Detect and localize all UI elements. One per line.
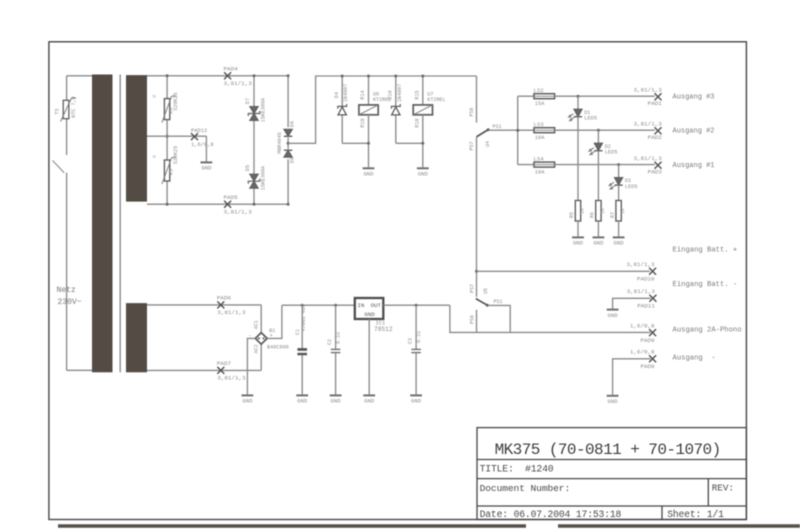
svg-text:R6: R6 bbox=[590, 212, 596, 218]
svg-text:OUT: OUT bbox=[371, 302, 382, 309]
svg-text:Eingang Batt. +: Eingang Batt. + bbox=[673, 247, 738, 255]
svg-text:D5: D5 bbox=[245, 165, 251, 171]
svg-text:D10: D10 bbox=[387, 90, 393, 99]
svg-text:GND: GND bbox=[418, 171, 429, 178]
svg-text:U5: U5 bbox=[483, 288, 489, 294]
svg-text:C3: C3 bbox=[408, 338, 414, 344]
svg-text:D8: D8 bbox=[289, 157, 295, 163]
svg-text:LED5: LED5 bbox=[625, 184, 638, 190]
svg-text:PAD1: PAD1 bbox=[648, 100, 663, 107]
svg-text:GND: GND bbox=[331, 398, 342, 405]
svg-text:Ausgang #1: Ausgang #1 bbox=[673, 162, 715, 170]
svg-text:R7: R7 bbox=[610, 212, 616, 218]
svg-text:PAD9: PAD9 bbox=[640, 337, 655, 344]
svg-text:Netz: Netz bbox=[57, 286, 76, 295]
svg-text:U: U bbox=[151, 95, 157, 98]
svg-text:LS3: LS3 bbox=[534, 121, 544, 128]
svg-text:PAD5: PAD5 bbox=[224, 194, 239, 201]
svg-text:U: U bbox=[152, 155, 158, 158]
svg-text:3,81/1,3: 3,81/1,3 bbox=[634, 121, 663, 128]
svg-text:Ausgang -: Ausgang - bbox=[673, 354, 716, 362]
svg-text:Document Number:: Document Number: bbox=[480, 483, 571, 494]
svg-text:GND: GND bbox=[201, 165, 212, 172]
svg-text:10A: 10A bbox=[535, 169, 545, 175]
svg-text:GND: GND bbox=[608, 312, 619, 319]
svg-text:Ausgang #3: Ausgang #3 bbox=[673, 94, 715, 102]
svg-text:R5: R5 bbox=[168, 169, 174, 175]
svg-text:GND: GND bbox=[242, 398, 253, 405]
svg-text:B40C800: B40C800 bbox=[267, 344, 289, 350]
svg-text:GND: GND bbox=[593, 240, 604, 247]
svg-text:GND: GND bbox=[614, 240, 625, 247]
svg-text:AC2: AC2 bbox=[254, 344, 260, 353]
svg-text:1k: 1k bbox=[580, 208, 586, 214]
svg-text:GND: GND bbox=[364, 311, 375, 318]
svg-text:PS7: PS7 bbox=[470, 284, 476, 293]
svg-text:R14: R14 bbox=[360, 90, 366, 99]
svg-text:GND: GND bbox=[573, 240, 584, 247]
svg-text:Ausgang 2A-Phono: Ausgang 2A-Phono bbox=[673, 327, 742, 335]
svg-text:PAD11: PAD11 bbox=[637, 303, 655, 310]
svg-text:0.1u: 0.1u bbox=[336, 332, 342, 344]
svg-text:PAD4: PAD4 bbox=[224, 66, 239, 73]
svg-text:230V~: 230V~ bbox=[58, 298, 82, 307]
svg-text:MK375 (70-0811 + 70-1070): MK375 (70-0811 + 70-1070) bbox=[495, 441, 721, 459]
svg-text:1k: 1k bbox=[600, 208, 606, 214]
svg-text:S20K25: S20K25 bbox=[173, 146, 179, 164]
svg-text:PS7: PS7 bbox=[469, 141, 475, 150]
svg-text:PAD12: PAD12 bbox=[191, 128, 207, 134]
svg-text:IN: IN bbox=[357, 302, 364, 309]
svg-text:R18: R18 bbox=[414, 118, 420, 127]
svg-text:3,81/1,3: 3,81/1,3 bbox=[217, 375, 246, 382]
svg-text:LS2: LS2 bbox=[534, 87, 544, 94]
svg-text:TS: TS bbox=[54, 108, 60, 114]
svg-text:4700u 40V: 4700u 40V bbox=[301, 304, 307, 331]
svg-text:3,81/1,3: 3,81/1,3 bbox=[626, 261, 655, 268]
svg-text:3,81/1,3: 3,81/1,3 bbox=[224, 209, 253, 216]
svg-text:78S12: 78S12 bbox=[374, 326, 393, 333]
svg-text:PS1: PS1 bbox=[493, 124, 502, 130]
svg-text:PAD6: PAD6 bbox=[217, 294, 232, 301]
svg-text:Eingang Batt. -: Eingang Batt. - bbox=[673, 281, 738, 289]
svg-text:R5: R5 bbox=[569, 212, 575, 218]
svg-text:1N4007: 1N4007 bbox=[397, 84, 403, 102]
svg-text:U4: U4 bbox=[485, 141, 491, 147]
svg-text:15KE300A: 15KE300A bbox=[261, 97, 267, 122]
svg-text:GND: GND bbox=[364, 398, 375, 405]
svg-text:PS1: PS1 bbox=[494, 299, 503, 305]
svg-text:D6: D6 bbox=[289, 121, 295, 127]
svg-text:3,81/1,3: 3,81/1,3 bbox=[217, 309, 246, 316]
svg-text:GND: GND bbox=[297, 398, 308, 405]
svg-text:REV:: REV: bbox=[712, 483, 734, 494]
svg-text:GND: GND bbox=[608, 398, 619, 405]
svg-text:LS4: LS4 bbox=[534, 156, 545, 163]
svg-text:LED5: LED5 bbox=[584, 116, 597, 122]
svg-text:1,6/0,8: 1,6/0,8 bbox=[630, 322, 655, 329]
svg-text:Sheet: 1/1: Sheet: 1/1 bbox=[667, 509, 724, 520]
svg-text:15A: 15A bbox=[535, 101, 545, 107]
svg-text:10A: 10A bbox=[535, 135, 545, 141]
svg-text:0.1u: 0.1u bbox=[416, 331, 422, 343]
svg-text:NTC 7,0: NTC 7,0 bbox=[71, 96, 77, 117]
svg-text:Ausgang #2: Ausgang #2 bbox=[673, 128, 715, 136]
svg-text:D7: D7 bbox=[245, 98, 251, 104]
svg-text:15KE300A: 15KE300A bbox=[261, 165, 267, 190]
svg-text:1,6/0,8: 1,6/0,8 bbox=[191, 142, 214, 148]
svg-text:KT2REL: KT2REL bbox=[427, 97, 445, 103]
svg-text:R19: R19 bbox=[360, 118, 366, 127]
svg-text:S20K25: S20K25 bbox=[173, 92, 179, 110]
svg-text:3,81/1,3: 3,81/1,3 bbox=[224, 80, 253, 87]
svg-text:3,81/1,3: 3,81/1,3 bbox=[627, 288, 656, 295]
svg-text:C2: C2 bbox=[327, 339, 333, 345]
svg-text:Date: 06.07.2004 17:53:18: Date: 06.07.2004 17:53:18 bbox=[480, 509, 622, 520]
svg-text:PAD10: PAD10 bbox=[637, 276, 655, 283]
svg-text:PAD8: PAD8 bbox=[640, 363, 655, 370]
svg-text:GND: GND bbox=[363, 171, 374, 178]
svg-text:PAD3: PAD3 bbox=[648, 169, 663, 176]
svg-text:3,81/1,3: 3,81/1,3 bbox=[634, 155, 663, 162]
svg-text:MBR4045: MBR4045 bbox=[277, 132, 283, 153]
svg-text:GND: GND bbox=[411, 398, 422, 405]
svg-text:R15: R15 bbox=[414, 90, 420, 99]
svg-text:PS6: PS6 bbox=[469, 107, 475, 116]
svg-text:PS6: PS6 bbox=[470, 315, 476, 324]
svg-text:1,6/0,8: 1,6/0,8 bbox=[630, 348, 655, 355]
svg-text:1N4007: 1N4007 bbox=[343, 84, 349, 102]
svg-text:AC1: AC1 bbox=[254, 320, 260, 329]
svg-text:PAD2: PAD2 bbox=[648, 134, 663, 141]
svg-text:PAD7: PAD7 bbox=[217, 360, 232, 367]
svg-text:3,81/1,3: 3,81/1,3 bbox=[634, 87, 663, 94]
svg-text:TITLE: #1240: TITLE: #1240 bbox=[480, 464, 554, 475]
svg-text:1k: 1k bbox=[620, 208, 626, 214]
svg-text:D4: D4 bbox=[334, 92, 340, 98]
svg-text:LED5: LED5 bbox=[605, 150, 618, 156]
